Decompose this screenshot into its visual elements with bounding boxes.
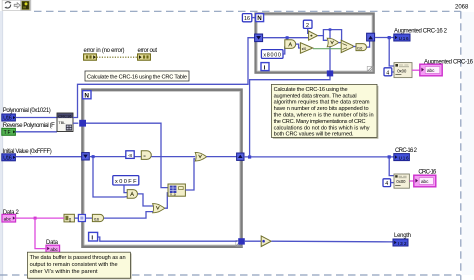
svg-text:output to remain consistent wi: output to remain consistent with the <box>30 262 118 268</box>
wire down to format subVI 2 <box>389 157 394 176</box>
constant x00FF <box>113 176 139 185</box>
wire branch to XOR top input <box>323 36 327 41</box>
subVI format hex string (bottom) <box>394 174 409 188</box>
indicator Length I32 <box>393 239 408 246</box>
wire 2 to multiply <box>308 29 309 34</box>
svg-text:algorithm requires that the da: algorithm requires that the data stream <box>274 100 370 106</box>
indicator Data string <box>46 245 60 252</box>
wire down to AND gate top <box>286 38 288 41</box>
svg-text:augmented data stream. The act: augmented data stream. The actual <box>274 93 357 99</box>
junction dot augmented <box>388 36 391 39</box>
right page margin strip <box>462 12 474 275</box>
subVI format hex string (top) <box>394 63 412 78</box>
conversion to U16 capsule <box>92 214 103 221</box>
svg-text:both CRC values will be return: both CRC values will be returned. <box>274 132 354 138</box>
wire shift out to xor <box>152 156 196 158</box>
toolbar icon arrow <box>14 3 20 8</box>
junction dot SR out top <box>286 36 289 39</box>
constant 16 <box>242 14 251 23</box>
wire x00FF down to AND <box>124 185 127 193</box>
subVI CRC table generator <box>57 113 73 132</box>
boolean wire to select <box>313 48 341 50</box>
svg-text:the data, where n is the numbe: the data, where n is the number of bits … <box>274 113 374 119</box>
wire pink to augmented indicator <box>412 69 420 71</box>
wire shift register out (big loop) <box>89 156 141 158</box>
constant -8 <box>126 151 134 159</box>
wire data down to Data indicator <box>35 218 46 249</box>
wire reverse polynomial to subVI <box>15 131 57 133</box>
error in terminal <box>84 54 97 60</box>
svg-text:≠0: ≠0 <box>302 46 307 51</box>
big loop N terminal <box>83 91 91 100</box>
junction dot data <box>34 217 37 220</box>
wire conversion to tunnel <box>74 217 92 219</box>
wire 4 to subVI <box>392 71 394 73</box>
wire i terminal to length tunnel <box>98 237 238 241</box>
label Initial Value (0xFFFF) <box>3 149 52 155</box>
big loop resize glyph <box>236 240 242 246</box>
label Augmented CRC-16 <box>424 59 474 65</box>
not equal to 0 gate <box>300 43 312 54</box>
label CRC-16 2 <box>395 148 418 154</box>
page break dashed line bottom <box>0 274 461 276</box>
svg-text:i: i <box>91 235 93 242</box>
wire 4 to subVI 2 <box>391 182 394 184</box>
svg-text:abc: abc <box>4 216 12 221</box>
wire 16 to N <box>252 17 256 19</box>
junction dot top <box>329 28 332 31</box>
indicator Augmented CRC-16 (string) <box>420 64 442 76</box>
wire augmented crc out <box>375 37 394 39</box>
XOR gate (top loop) <box>327 38 339 47</box>
svg-text:error out: error out <box>138 48 158 54</box>
label Calculate the CRC-16 using the CRC Table <box>85 71 189 81</box>
wire XOR lower out up to index array <box>165 193 168 208</box>
conversion I16 box (top loop) <box>356 44 367 51</box>
svg-text:U16: U16 <box>399 36 409 41</box>
wire XOR out to select <box>338 42 341 44</box>
svg-text:n..a: n..a <box>170 193 176 197</box>
wire initial value to shift register <box>15 156 82 158</box>
top loop resize glyph <box>367 66 373 71</box>
data conversion: string to byte array <box>64 214 74 222</box>
label Augmented CRC-16 2 <box>394 28 448 34</box>
shift register right (big loop) <box>237 153 244 160</box>
junction dot crc result <box>248 155 251 158</box>
svg-text:U16: U16 <box>399 156 409 161</box>
wire pink to CRC-16 indicator <box>409 180 413 182</box>
big for loop border <box>83 90 242 247</box>
wire conversion up to shift register right <box>367 41 370 47</box>
svg-text:I16: I16 <box>357 46 363 51</box>
top loop N terminal <box>256 14 264 23</box>
label Length <box>394 233 411 239</box>
AND gate (top loop) <box>285 40 296 49</box>
svg-text:U16: U16 <box>3 156 12 162</box>
toolbar icon highlight (pressed) <box>21 0 30 10</box>
wire crc result out of loop <box>244 156 394 158</box>
svg-text:2: 2 <box>306 23 309 29</box>
comment box: augmented data stream explanation <box>271 84 378 138</box>
indicator CRC-16 (string) <box>414 175 436 187</box>
svg-text:0x00: 0x00 <box>396 179 406 184</box>
XOR gate upper (big loop) <box>195 152 207 161</box>
wire AND out to XOR lower <box>138 194 153 206</box>
svg-text:Polynomial (0x1021): Polynomial (0x1021) <box>3 108 51 114</box>
toolbar group border <box>2 0 31 10</box>
label Data 2 <box>3 210 20 216</box>
wire x8000 to AND <box>283 47 285 54</box>
wire table feedback around loop (subVI to top loop shift register) <box>73 38 255 118</box>
label Reverse Polynomial (F <box>3 123 55 129</box>
svg-text:calculations do not do this wh: calculations do not do this which is why <box>274 125 370 131</box>
error wire <box>97 56 138 58</box>
top for loop border <box>256 14 374 73</box>
svg-text:»: » <box>143 153 146 158</box>
control Reverse Polynomial TF <box>2 128 16 136</box>
svg-text:N: N <box>84 92 89 99</box>
svg-text:I16: I16 <box>94 217 100 222</box>
label Data <box>46 240 59 246</box>
wire AND out to not-equal <box>296 44 301 48</box>
indicator CRC-16 2 <box>394 154 410 161</box>
XOR gate lower <box>153 204 165 213</box>
svg-text:N: N <box>257 15 262 22</box>
svg-text:4: 4 <box>385 181 388 187</box>
svg-text:0x00: 0x00 <box>397 68 407 73</box>
svg-text:Calculate the CRC-16 using the: Calculate the CRC-16 using the <box>274 87 348 93</box>
wire junction down to bottom tunnel <box>329 30 331 71</box>
comment box: data buffer passthrough <box>27 252 131 279</box>
shift register left (big loop) <box>82 153 90 160</box>
shift register right (top loop) <box>367 33 375 41</box>
wire conversion to Length indicator <box>271 240 393 243</box>
wire table to loop tunnel <box>73 122 78 124</box>
svg-text:have n number of zero bits app: have n number of zero bits appended to <box>274 106 369 112</box>
svg-text:CRC16: CRC16 <box>58 115 71 119</box>
page break dashed line top <box>34 10 461 12</box>
wire XOR out to right shift register <box>206 156 236 158</box>
tunnel data (auto-indexing) <box>78 215 85 222</box>
svg-text:other VI's within the parent: other VI's within the parent <box>30 269 98 275</box>
svg-text:TBL: TBL <box>58 121 65 125</box>
constant 2 <box>303 20 312 29</box>
svg-text:abc: abc <box>427 68 435 73</box>
svg-text:4: 4 <box>386 70 389 76</box>
control Initial Value U16 <box>2 154 16 162</box>
wire table inside loop to index array <box>86 123 168 187</box>
shift register left (top loop) <box>255 34 263 42</box>
wire branch down to AND gate <box>93 157 127 197</box>
AND gate (table index) <box>127 190 137 199</box>
svg-text:Length: Length <box>394 233 411 239</box>
wire multiply out up and to select column <box>318 30 342 41</box>
svg-text:abc: abc <box>421 179 429 184</box>
wire data2 to conversion <box>16 217 64 219</box>
select gate <box>341 40 353 52</box>
svg-text:TF: TF <box>4 130 11 136</box>
wire junction down to format subVI <box>389 38 394 67</box>
svg-text:The data buffer is passed thro: The data buffer is passed through as an <box>30 255 126 261</box>
svg-text:U16: U16 <box>3 116 12 122</box>
top loop i terminal <box>261 63 269 72</box>
svg-text:[]: [] <box>69 216 71 221</box>
page number 2068 <box>455 5 469 11</box>
error out terminal <box>138 54 151 60</box>
wire index array out to XOR upper <box>185 159 195 190</box>
svg-text:abc: abc <box>50 247 58 252</box>
tunnel length (bottom right) <box>238 238 245 244</box>
wire select out to conversion <box>353 46 356 48</box>
svg-text:CRC-16 2: CRC-16 2 <box>395 148 418 154</box>
wire crc result up into top loop tunnel <box>250 73 330 157</box>
conversion to I32 triangle <box>261 236 271 247</box>
svg-text:the CRC. Many implementations: the CRC. Many implementations of CRC <box>274 119 366 125</box>
svg-text:Calculate the CRC-16 using the: Calculate the CRC-16 using the CRC Table <box>87 75 187 81</box>
control Data 2 string <box>2 214 16 222</box>
label error out <box>138 48 158 54</box>
svg-text:x00FF: x00FF <box>115 179 137 185</box>
label CRC-16 <box>418 170 437 176</box>
svg-text:x8000: x8000 <box>263 52 281 58</box>
junction dot SR out <box>92 155 95 158</box>
wire tunnel to conversion triangle <box>244 240 261 242</box>
constant 4 (top) <box>384 68 392 77</box>
svg-text:error in (no error): error in (no error) <box>84 48 125 54</box>
svg-text:2068: 2068 <box>455 5 469 11</box>
label error in <box>84 48 125 54</box>
constant 4 (bottom) <box>383 179 391 187</box>
page break dashed line right vertical <box>460 11 462 280</box>
svg-text:16: 16 <box>244 16 250 22</box>
index array node <box>168 184 185 197</box>
constant x8000 <box>261 50 283 59</box>
wire data byte to XOR lower input <box>104 212 153 219</box>
multiply gate <box>309 31 318 40</box>
toolbar icon cleanup <box>4 1 11 8</box>
wire SR out (top loop) <box>263 37 308 39</box>
svg-text:-8: -8 <box>128 153 133 159</box>
label Polynomial (0x1021) <box>3 108 51 114</box>
logical shift gate <box>141 151 151 160</box>
indicator Augmented CRC-16 2 <box>394 34 410 41</box>
left window edge strip <box>0 11 3 280</box>
tunnel table array (left edge) <box>79 120 86 127</box>
wire polynomial to subVI <box>15 117 57 119</box>
tunnel bottom (top loop) <box>327 70 333 76</box>
control Polynomial U16 <box>2 114 16 122</box>
big loop i terminal <box>89 232 98 241</box>
junction dot to format subVI 2 <box>388 155 391 158</box>
